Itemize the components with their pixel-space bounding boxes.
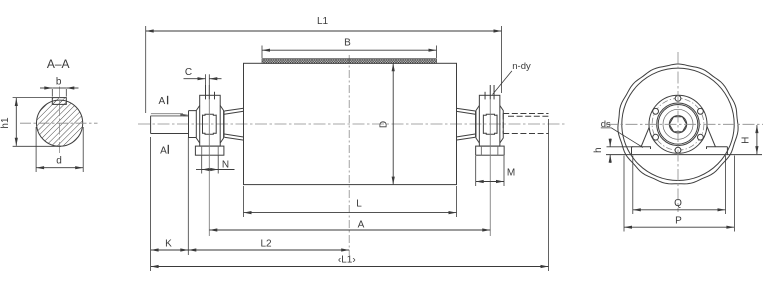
left cone bottom lines xyxy=(224,134,243,140)
pedestal base top line right xyxy=(707,147,728,149)
drum shell xyxy=(244,63,457,184)
svg-text:A: A xyxy=(160,146,167,157)
pedestal base sides xyxy=(632,147,728,155)
bolt circles xyxy=(675,96,681,102)
svg-text:L: L xyxy=(356,199,362,210)
svg-text:h: h xyxy=(593,147,604,153)
drum shell circle xyxy=(622,68,734,180)
hub flange circles xyxy=(657,103,700,146)
lagging strip (cross-hatched) xyxy=(262,59,437,64)
hub outline circle xyxy=(649,95,707,153)
pedestal slope left xyxy=(641,110,657,148)
shaft hole circle xyxy=(669,116,686,133)
end view horizontal centerline xyxy=(606,123,763,125)
right cone bottom lines xyxy=(456,134,475,140)
left bearing xyxy=(195,85,224,155)
dim N xyxy=(202,169,219,171)
svg-text:‹L1›: ‹L1› xyxy=(338,255,356,266)
end view vertical centerline xyxy=(677,52,679,212)
leader n-dy xyxy=(493,71,512,95)
section cut marks A-A xyxy=(167,96,170,154)
svg-text:A: A xyxy=(358,220,365,231)
svg-text:d: d xyxy=(56,156,62,167)
svg-text:Q: Q xyxy=(674,198,682,209)
pedestal slope right xyxy=(700,110,716,148)
dim Q xyxy=(633,209,726,211)
key in keyway (hatched) xyxy=(52,98,66,105)
svg-text:A–A: A–A xyxy=(47,57,70,71)
dim K xyxy=(151,249,189,251)
svg-text:M: M xyxy=(507,168,515,179)
dim (L1) bottom xyxy=(151,266,549,268)
shaft hexagon xyxy=(669,117,686,132)
dim M xyxy=(476,181,504,183)
dim H xyxy=(756,125,758,154)
right hub step xyxy=(475,111,477,137)
dim L2 xyxy=(188,249,349,251)
shaft step xyxy=(189,111,197,138)
section tick bottom xyxy=(167,145,169,154)
svg-text:B: B xyxy=(344,38,351,49)
keyway end arrow xyxy=(180,114,188,117)
svg-text:n-dy: n-dy xyxy=(512,61,531,72)
svg-text:N: N xyxy=(222,160,229,171)
dim C extension lines xyxy=(205,74,207,85)
left bearing centerline / A extension xyxy=(208,99,210,236)
dim B xyxy=(262,49,437,51)
dim P xyxy=(624,226,734,228)
keyway lines on shaft end xyxy=(151,113,183,115)
section tick top xyxy=(167,96,169,105)
drum vertical centerline xyxy=(348,55,350,255)
D dimension vertical line xyxy=(392,63,394,184)
dim A xyxy=(209,229,490,231)
left cone top lines xyxy=(224,108,243,114)
pedestal base bottom line xyxy=(606,154,762,156)
right bearing (mirrored) xyxy=(476,85,505,155)
right cone top lines xyxy=(456,108,475,114)
svg-text:L2: L2 xyxy=(260,239,272,250)
left hub step xyxy=(223,111,225,137)
svg-text:L1: L1 xyxy=(317,16,329,27)
dim C arrows xyxy=(184,78,206,80)
drum outer lagging circle (wavy) xyxy=(618,64,738,184)
svg-text:D: D xyxy=(379,121,390,128)
svg-text:C: C xyxy=(185,67,192,78)
svg-text:P: P xyxy=(675,216,682,227)
centerline vertical of section xyxy=(58,87,60,155)
bolt pitch circle (dash-dot) xyxy=(652,98,704,150)
hub inner ring xyxy=(663,109,693,139)
centerline horizontal of section xyxy=(20,122,98,124)
svg-text:ds: ds xyxy=(601,119,611,130)
shaft cross-section circle (hatched) xyxy=(37,100,83,146)
svg-text:b: b xyxy=(56,77,62,88)
dim L xyxy=(244,212,457,214)
svg-text:H: H xyxy=(741,137,752,144)
right shaft keyway dashed line xyxy=(508,115,549,117)
svg-text:K: K xyxy=(165,239,172,250)
right shaft dashed (phantom) xyxy=(503,114,548,134)
pedestal base top line left xyxy=(632,147,651,149)
dim L1 top xyxy=(146,30,502,32)
svg-text:A: A xyxy=(158,96,165,107)
main shaft centerline xyxy=(138,123,566,125)
dim h arrows (outside) xyxy=(609,139,611,147)
right bearing centerline / A extension xyxy=(489,99,491,236)
leader ds xyxy=(601,128,643,148)
svg-text:h1: h1 xyxy=(0,117,11,129)
left shaft end xyxy=(151,116,189,134)
